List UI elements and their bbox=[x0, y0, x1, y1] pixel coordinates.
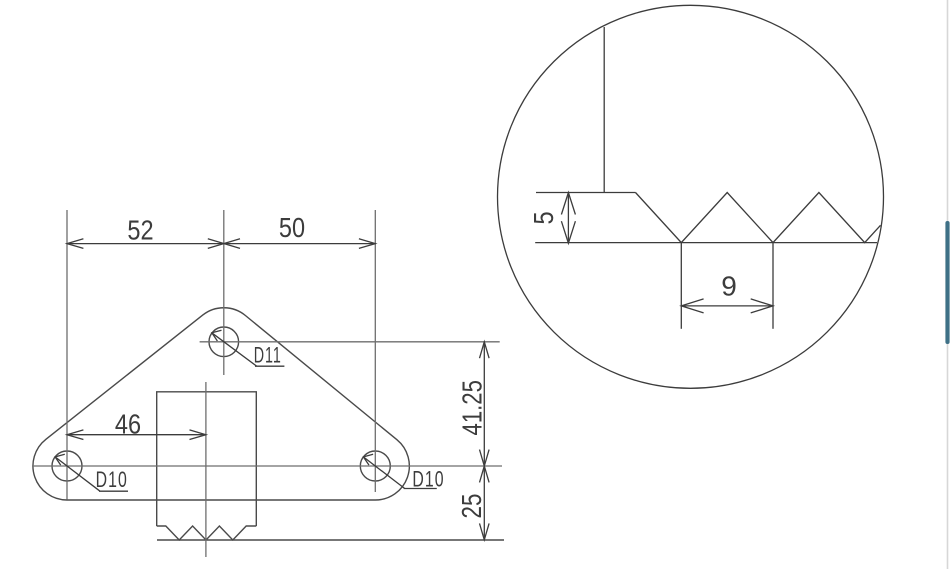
svg-text:D10: D10 bbox=[412, 468, 444, 492]
dimension 50 bbox=[224, 239, 375, 249]
scrollbar thumb bbox=[945, 221, 949, 344]
text D10 right bbox=[412, 468, 444, 492]
center line horizontal top hole / extension 41.25 bbox=[200, 341, 500, 343]
dimension 52 bbox=[67, 239, 240, 249]
center line vertical top hole bbox=[223, 210, 225, 375]
leader D10 right bbox=[363, 454, 436, 488]
dimension 41.25 bbox=[480, 342, 490, 483]
svg-text:41.25: 41.25 bbox=[457, 380, 488, 435]
leader D10 left bbox=[55, 454, 128, 491]
hole D10 right bbox=[360, 451, 390, 481]
plate outline bbox=[33, 308, 409, 500]
detail shaft side vertical bbox=[603, 27, 605, 193]
svg-text:9: 9 bbox=[721, 271, 737, 302]
text 50 bbox=[279, 213, 305, 243]
detail circle view bbox=[498, 5, 884, 388]
svg-text:D10: D10 bbox=[96, 469, 128, 493]
center line horizontal bottom holes bbox=[33, 465, 502, 467]
svg-text:50: 50 bbox=[279, 213, 305, 243]
detail baseline bbox=[535, 242, 877, 244]
svg-text:5: 5 bbox=[529, 211, 559, 224]
svg-text:52: 52 bbox=[127, 216, 153, 246]
hole D10 left bbox=[52, 451, 82, 481]
svg-text:46: 46 bbox=[115, 410, 141, 440]
leader D11 bbox=[212, 330, 285, 366]
center line vertical left hole / extension 52 bbox=[66, 210, 68, 500]
dimension 9 bbox=[681, 243, 773, 329]
text 5 rotated bbox=[529, 211, 559, 224]
text 52 bbox=[127, 216, 153, 246]
svg-text:D11: D11 bbox=[254, 342, 282, 367]
detail circle boundary bbox=[498, 5, 884, 388]
center line vertical shaft bbox=[205, 382, 207, 557]
dimension 5 bbox=[561, 193, 575, 244]
shaft rectangle with serrated bottom bbox=[157, 392, 257, 540]
baseline ground line bbox=[157, 539, 504, 541]
hole D11 top bbox=[209, 327, 239, 357]
text 9 bbox=[721, 271, 737, 302]
text 25 rotated bbox=[457, 494, 488, 519]
svg-text:25: 25 bbox=[457, 494, 488, 519]
dimension 46 bbox=[67, 430, 206, 440]
center line vertical right hole / extension 50 bbox=[374, 210, 376, 492]
text 46 bbox=[115, 410, 141, 440]
text D10 left bbox=[96, 469, 128, 493]
scrollbar track line bbox=[947, 0, 949, 569]
dimension 25 bbox=[480, 466, 490, 540]
text D11 bbox=[254, 342, 282, 367]
text 41.25 rotated bbox=[457, 380, 488, 435]
detail tooth slope and teeth bbox=[636, 193, 881, 243]
detail ledge bbox=[536, 192, 636, 194]
